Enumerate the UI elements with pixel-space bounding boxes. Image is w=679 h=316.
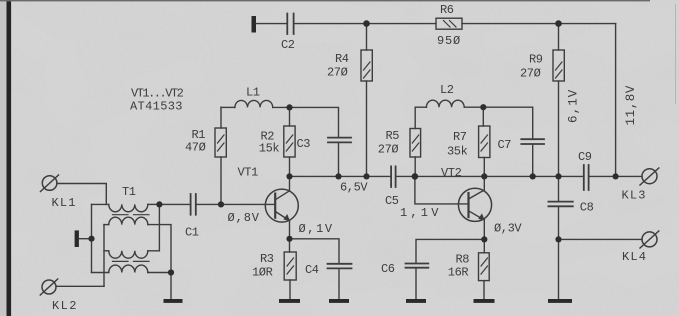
svg-text:27Ø: 27Ø (378, 143, 399, 157)
wire node to C1 (159, 203, 189, 205)
svg-text:R3: R3 (260, 252, 274, 266)
junction T1 ground tap (88, 236, 94, 242)
svg-text:C2: C2 (281, 38, 295, 52)
top scan edge line (0, 0, 650, 1)
svg-text:C3: C3 (297, 137, 311, 151)
svg-text:T1: T1 (122, 185, 136, 199)
wire top rail mid (295, 23, 437, 25)
svg-text:C6: C6 (381, 262, 395, 276)
wire C3 to rail (338, 143, 340, 177)
junction R4 top node (363, 20, 370, 27)
capacitor C4 (328, 264, 352, 269)
junction R9 top node (555, 20, 562, 27)
terminal bar T1 ground (75, 230, 79, 247)
wire C8 column (558, 176, 560, 201)
wire top rail right (462, 23, 616, 25)
svg-text:L1: L1 (246, 86, 260, 100)
connector KL3 (642, 169, 657, 184)
svg-text:KL4: KL4 (622, 250, 647, 264)
svg-text:6,5V: 6,5V (340, 181, 368, 195)
junction R9 bottom / C8 node (555, 173, 561, 179)
junction VT2 collector node (481, 173, 487, 179)
svg-text:C5: C5 (385, 194, 399, 208)
capacitor C6 (406, 264, 429, 268)
svg-text:Ø,3V: Ø,3V (494, 222, 522, 236)
svg-text:L2: L2 (440, 83, 454, 97)
terminal bar top-left (252, 16, 257, 33)
wire T1 top-left link (92, 203, 109, 205)
wire T1 lower-left link (92, 272, 109, 274)
svg-text:VT1...VT2: VT1...VT2 (131, 87, 184, 101)
faint right scan line (675, 4, 676, 104)
svg-text:VT1: VT1 (238, 166, 259, 180)
transistor VT1 circle (265, 189, 298, 222)
VT2 base bar (467, 193, 469, 217)
capacitor C2 (287, 14, 293, 35)
connector KL2 (42, 280, 56, 294)
svg-text:R6: R6 (440, 3, 454, 17)
transformer T1 upper winding primary (109, 204, 148, 211)
wire C1 to base node (197, 203, 221, 205)
capacitor C1 (191, 194, 196, 215)
svg-text:16R: 16R (448, 266, 469, 280)
svg-text:C4: C4 (305, 263, 319, 277)
ground C6 (406, 299, 426, 303)
svg-text:1,1V: 1,1V (400, 206, 442, 220)
wire VT2 emitter to C6 (416, 239, 484, 263)
resistor R4 (366, 24, 368, 50)
junction L1/R2 node (286, 104, 292, 110)
wire KL4 (559, 238, 643, 240)
svg-text:35k: 35k (447, 145, 468, 159)
capacitor C7 (521, 139, 544, 144)
transformer T1 upper winding secondary (109, 217, 148, 224)
transformer T1 lower winding primary (109, 251, 148, 258)
junction R5 bottom / VT2 base feed (412, 173, 419, 180)
transistor VT2 circle (458, 188, 491, 221)
wire bar to T1 (79, 238, 92, 240)
wire R5 base feed (415, 176, 469, 204)
junction L2/R7 node (480, 104, 486, 110)
resistor R8 (483, 239, 485, 252)
svg-text:R5: R5 (386, 129, 400, 143)
svg-text:R9: R9 (529, 53, 543, 67)
resistor R7 (482, 107, 484, 126)
wire C4 down (338, 269, 340, 299)
connector KL4 (642, 232, 657, 247)
capacitor C3 (328, 138, 351, 143)
transformer T1 lower winding secondary (109, 265, 148, 272)
VT1 base bar (274, 194, 276, 218)
ground C8 (548, 299, 572, 303)
resistor R6 (436, 18, 462, 29)
svg-text:27Ø: 27Ø (520, 67, 541, 81)
resistor R1 (220, 157, 222, 204)
mid rail (290, 175, 391, 177)
wire C7 to rail (532, 144, 534, 176)
svg-text:C8: C8 (580, 201, 594, 215)
connector KL1 (42, 176, 57, 191)
inductor L2 (415, 106, 426, 108)
resistor R5 (414, 157, 416, 176)
svg-text:KL2: KL2 (52, 299, 78, 313)
junction T1 output node (156, 201, 162, 207)
VT2 collector (469, 176, 485, 199)
junction VT1 collector node (286, 173, 292, 179)
VT1 emitter (275, 211, 289, 238)
wire T1 winding lower-left stub (104, 224, 109, 226)
svg-text:R4: R4 (335, 52, 349, 66)
wire node to C3 (290, 107, 339, 137)
capacitor C8 (548, 202, 572, 207)
wire T1 lower secondary right (148, 273, 171, 300)
wire KL1 to T1 (57, 184, 106, 205)
svg-text:C7: C7 (498, 138, 512, 152)
junction C7 bottom on rail (530, 173, 536, 179)
svg-text:AT41533: AT41533 (130, 100, 183, 114)
svg-text:C9: C9 (578, 150, 592, 164)
wire T1 lower top stub (104, 250, 109, 252)
wire T1 left vertical (91, 204, 93, 272)
junction 11,8V feed on output rail (613, 173, 619, 179)
core dashes upper (113, 214, 150, 216)
ground C4 (329, 299, 349, 303)
svg-text:KL1: KL1 (52, 196, 77, 210)
wire C6 down (415, 268, 417, 299)
svg-text:R8: R8 (456, 253, 470, 267)
svg-text:1ØR: 1ØR (252, 266, 273, 280)
ground T1 (164, 299, 183, 303)
wire top rail left (256, 23, 287, 25)
wire L1 right to node (273, 106, 290, 108)
svg-text:95Ø: 95Ø (437, 34, 461, 48)
svg-text:27Ø: 27Ø (327, 66, 348, 80)
wire T1 secondary right down (148, 225, 171, 273)
page spine dark bar (7, 0, 12, 316)
wire T1 upper right to node (148, 203, 160, 205)
resistor R9 (558, 24, 560, 50)
svg-text:6,1V: 6,1V (567, 89, 581, 123)
svg-text:R7: R7 (453, 130, 467, 144)
junction C3 on 6,5V rail (335, 173, 341, 179)
junction VT2 emitter node (481, 236, 487, 242)
wire T1 right vertical (148, 204, 160, 250)
junction R4 bottom on 6,5V rail (363, 173, 369, 179)
wire node to C7 (483, 107, 532, 138)
junction C8 / KL4 node (555, 236, 561, 242)
capacitor C9 (584, 165, 589, 190)
resistor R2 (289, 107, 291, 126)
wire 11.8V vertical (615, 24, 617, 177)
wire emitter node (290, 239, 340, 263)
svg-text:C1: C1 (185, 226, 199, 240)
svg-text:15k: 15k (259, 142, 280, 156)
ground R8 (474, 299, 495, 303)
wire T1 inter-winding vertical (103, 225, 105, 287)
svg-text:Ø,1V: Ø,1V (299, 222, 334, 236)
ground R3 (279, 299, 300, 303)
svg-text:VT2: VT2 (441, 166, 462, 180)
wire KL2 to T1 (56, 285, 104, 287)
capacitor C5 (391, 166, 396, 187)
resistor R3 (289, 239, 291, 252)
svg-text:KL3: KL3 (622, 189, 647, 203)
VT1 collector (275, 176, 289, 199)
svg-text:47Ø: 47Ø (185, 141, 206, 155)
junction VT1 base node (218, 201, 224, 207)
svg-text:Ø,8V: Ø,8V (228, 211, 260, 225)
wire base node to VT1 (221, 203, 275, 205)
VT2 emitter (469, 211, 485, 240)
inductor L1 (221, 106, 235, 108)
junction VT1 emitter node (286, 236, 292, 242)
core dashes lower (113, 260, 150, 262)
junction T1 secondary ground node (168, 269, 174, 275)
svg-text:11,8V: 11,8V (624, 85, 638, 126)
